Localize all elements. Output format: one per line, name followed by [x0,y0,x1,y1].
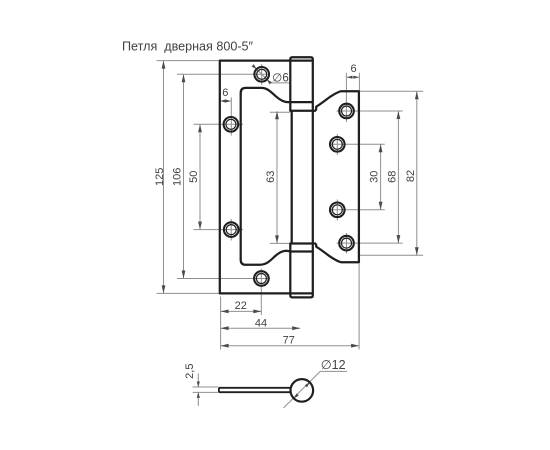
extension line: right plate edge vertical (for 6 right) [358,73,360,91]
svg-text:50: 50 [188,171,200,183]
crosshair: right hole 2 vertical [336,134,338,155]
barrel bottom edge line at plate bottom [290,292,313,294]
side view leaf bar [219,388,292,392]
extension line: right hole 1 (for 68) [337,110,403,112]
svg-text:6: 6 [351,63,357,75]
dimension line 2,5 lower part [197,392,199,406]
arrowheads for leader diam 12 [305,381,311,387]
barrel knuckle joint line upper 1 [290,101,313,103]
extension line: bottom knuckle joint (for 63) [270,242,290,244]
extension line: top knuckle joint (for 63) [270,111,290,113]
extension line: top hole center (for 106) [177,73,267,75]
svg-text:63: 63 [265,171,277,183]
barrel knuckle joint line upper 2 [290,110,316,112]
left plate inner cutout with top and bottom waves [241,88,291,265]
svg-text:82: 82 [405,170,417,182]
barrel knuckle joint line lower 2 [290,250,313,252]
arrowheads for dimension 6 left (outward) [220,99,226,102]
dimension line 6 right [346,76,359,78]
svg-text:44: 44 [255,318,267,330]
arrowheads for dimension 68 [397,111,401,119]
crosshair: top hole vertical [261,64,263,85]
extension line: right plate top (for 82) [360,90,423,92]
extension line: bar bottom (for 2,5) [193,391,219,393]
svg-text:106: 106 [172,168,184,186]
svg-text:∅12: ∅12 [321,358,346,372]
arrowheads for dimension 2,5 (outside) [197,382,200,388]
svg-text:6: 6 [222,87,228,99]
crosshair: right hole 4 vertical [346,233,348,254]
svg-text:30: 30 [369,171,381,183]
arrowheads for dimension 30 [379,144,383,152]
extension line: right plate right edge vertical (for 77) [358,264,360,350]
arrowheads for leader diam 6 [252,64,258,70]
arrowheads for dimension 50 [198,124,202,132]
screw hole R2 [330,137,345,152]
extension line: bar top (for 2,5) [193,386,219,388]
dimension line 22 [221,310,262,312]
arrowheads for dimension 77 [221,344,229,348]
arrowheads for dimension 125 [162,61,166,69]
dimension line 50 [199,124,201,229]
dimension line 2,5 upper part [197,374,199,388]
barrel knuckle joint line lower 1 [290,242,316,244]
svg-text:77: 77 [283,335,295,347]
extension line: bottom hole vertical (for 22) [260,269,262,316]
arrowheads for dimension 82 [415,91,419,99]
extension line: plate top edge (for 125) [157,60,220,62]
extension line: bottom hole center (for 106) [177,278,270,280]
extension line: right plate bottom (for 82) [360,254,423,256]
screw hole L1 top [254,67,269,82]
left plate outline [220,61,290,294]
screw hole R4 bottom [339,236,354,251]
barrel top edge line at plate top [290,59,313,61]
svg-text:∅6: ∅6 [272,72,288,84]
extension line: right hole 2 (for 30) [330,143,385,145]
screw hole L2 upper left [224,117,239,132]
crosshair: lower-left hole vertical [230,219,232,241]
dimension line 82 [416,91,418,255]
extension line: right hole 3 (for 30) [330,209,385,211]
extension line: right hole 4 (for 68) [337,242,403,244]
svg-text:68: 68 [387,171,399,183]
extension line: lower-left hole center (for 50) [194,229,244,231]
screw hole L3 lower left [224,222,239,237]
screw hole R3 [330,203,345,218]
arrowheads for dimension 63 [275,111,279,119]
svg-text:22: 22 [235,300,247,312]
extension line: upper-left hole vertical (for 6 left) [230,98,232,136]
arrowheads for dimension 22 [221,310,229,314]
screw hole L4 bottom [254,271,269,286]
svg-text:125: 125 [154,168,166,186]
dimension line 77 [221,345,360,347]
screw hole R1 top [339,104,354,119]
leader line diam 12 [284,371,347,408]
dimension line 106 [183,74,185,278]
arrowheads for dimension 106 [182,74,186,82]
hinge pin barrel (central column) [290,57,313,297]
arrowheads for dimension 44 [221,326,229,330]
svg-text:2,5: 2,5 [184,364,196,379]
svg-text:Петля дверная 800-5″: Петля дверная 800-5″ [122,38,253,53]
extension line: plate left edge vertical (for 22 44 77) [220,297,222,350]
dimension line 6 left [220,100,232,102]
arrowheads for dimension 6 right (outward) [347,76,353,79]
dimension line 63 [276,111,278,243]
side view pin knuckle circle [291,379,314,402]
right plate outline [316,91,359,262]
crosshair: right hole 3 vertical [336,200,338,221]
dimension line 125 [163,61,165,294]
dimension line 30 [380,144,382,210]
extension line: plate bottom edge (for 125) [157,292,220,294]
dimension line 44 [221,327,301,329]
extension line: right hole 1 vertical (for 6 right) [345,73,347,122]
extension line: upper-left hole center (for 50) [194,123,244,125]
leader line diam 6 [253,65,289,83]
dimension line 68 [397,111,399,243]
